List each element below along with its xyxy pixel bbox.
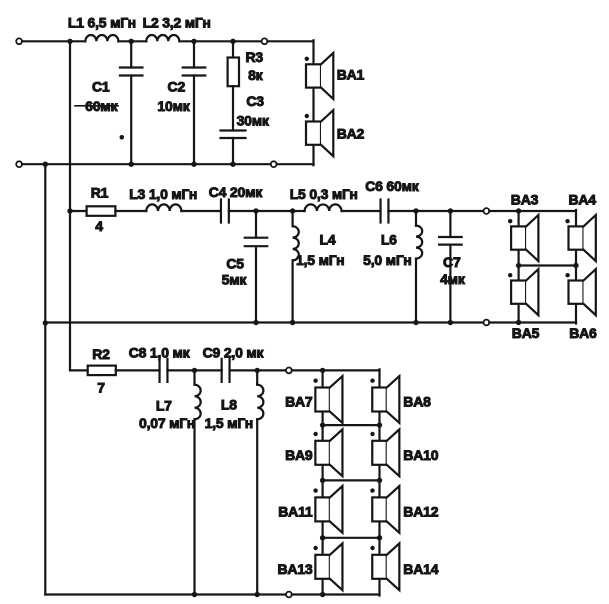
svg-text:BA10: BA10 (403, 447, 438, 463)
svg-text:C4 20мк: C4 20мк (209, 184, 264, 200)
terminal sec1 out (+) (262, 38, 268, 44)
svg-text:R2: R2 (92, 346, 110, 362)
svg-text:C1: C1 (92, 79, 110, 95)
wire mid connector (519, 264, 576, 266)
wire BA7 col (322, 370, 324, 594)
node conn right (573, 263, 578, 268)
node C2-top junction (191, 39, 196, 44)
input terminal XT1 (+) (16, 38, 22, 44)
svg-text:0,07 мГн: 0,07 мГн (139, 415, 195, 431)
node L8-bot junction (255, 592, 260, 597)
node L4-top junction (290, 208, 295, 213)
polarity dot BA9 (313, 432, 317, 436)
wire (292, 369, 380, 371)
node conn2 left (320, 478, 325, 483)
svg-text:30мк: 30мк (237, 113, 270, 129)
wire (489, 321, 576, 323)
node B junction (43, 162, 48, 167)
speaker BA6 (569, 281, 584, 304)
input terminal XT2 (-) (16, 161, 22, 167)
wire (181, 210, 221, 212)
speaker BA5 (511, 281, 526, 304)
speaker BA11 (315, 497, 330, 521)
speaker BA1 (306, 64, 321, 87)
polarity dot BA3 (508, 219, 512, 223)
node C1-bot junction (129, 162, 134, 167)
svg-text:C6 60мк: C6 60мк (365, 178, 420, 194)
wire (267, 40, 313, 42)
wire (388, 210, 483, 212)
svg-text:BA7: BA7 (285, 394, 313, 410)
svg-text:4: 4 (95, 218, 103, 234)
capacitor C3 (232, 86, 234, 130)
wire sec2 bottom rail (45, 321, 483, 323)
resistor R2 (88, 366, 116, 376)
inductor L6 (415, 211, 417, 226)
wire plus feed (69, 41, 71, 370)
svg-text:L1 6,5 мГн: L1 6,5 мГн (68, 15, 136, 31)
inductor L7 (193, 370, 195, 384)
wire (293, 210, 305, 212)
svg-text:R3: R3 (246, 49, 264, 65)
speaker BA14 (372, 555, 387, 579)
wire (342, 210, 381, 212)
speaker BA10 (372, 441, 387, 465)
polarity dot BA10 (370, 432, 374, 436)
speaker BA12 (372, 497, 387, 521)
wire BA8 col (378, 369, 380, 595)
node L6-bot junction (413, 320, 418, 325)
inductor L3 (146, 204, 181, 211)
node L8-top junction (255, 368, 260, 373)
svg-text:1,5 мГн: 1,5 мГн (205, 415, 253, 431)
polarity dot BA13 (313, 546, 317, 550)
wire (116, 369, 160, 371)
resistor R3 (232, 41, 234, 57)
wire connector row 2 (323, 479, 380, 481)
wire (489, 210, 576, 212)
strike mark (75, 105, 118, 107)
capacitor C2 (193, 41, 195, 67)
wire (22, 40, 85, 42)
capacitor C8 (158, 359, 160, 382)
speaker BA4 (569, 226, 584, 249)
svg-text:C5: C5 (226, 255, 244, 271)
polarity dot BA1 (305, 57, 309, 61)
node C7-top junction (448, 208, 453, 213)
wire connector row 3 (323, 537, 380, 539)
wire (229, 210, 293, 212)
svg-text:L6: L6 (381, 231, 397, 247)
node BA3 junction (516, 208, 521, 213)
svg-text:L7: L7 (156, 397, 172, 413)
wire (277, 163, 314, 165)
svg-text:BA9: BA9 (285, 447, 313, 463)
svg-text:L2 3,2 мГн: L2 3,2 мГн (143, 15, 211, 31)
svg-text:C7: C7 (443, 254, 461, 270)
terminal sec3 out (+) (286, 368, 292, 374)
node L7-top junction (192, 368, 197, 373)
wire (312, 40, 314, 64)
speaker BA7 (315, 388, 330, 412)
node R3-top junction (230, 39, 235, 44)
capacitor C4 (220, 200, 222, 223)
node C1-top junction (129, 39, 134, 44)
capacitor C1 (130, 41, 132, 67)
node L6-top junction (413, 208, 418, 213)
svg-text:C9 2,0 мк: C9 2,0 мк (203, 344, 265, 360)
inductor L4 (292, 211, 294, 226)
speaker BA2 (306, 122, 321, 145)
wire (22, 163, 271, 165)
node R1 input junction (67, 208, 72, 213)
inductor L5 (305, 204, 342, 211)
resistor R1 (87, 206, 116, 216)
svg-text:BA6: BA6 (569, 325, 597, 341)
wire (312, 145, 314, 165)
node BA5 junction (516, 320, 521, 325)
inductor L8 (256, 370, 258, 384)
node conn left (516, 263, 521, 268)
inductor L1 (85, 35, 118, 41)
svg-text:8к: 8к (248, 67, 264, 83)
capacitor C9 (221, 359, 223, 382)
polarity dot BA5 (508, 273, 512, 277)
svg-text:BA5: BA5 (512, 325, 540, 341)
capacitor C5 (255, 211, 257, 238)
node L7-bot junction (192, 592, 197, 597)
svg-text:10мк: 10мк (157, 98, 190, 114)
svg-text:C3: C3 (246, 93, 264, 109)
wire (118, 40, 146, 42)
node BA7 junction (320, 368, 325, 373)
svg-text:5мк: 5мк (222, 271, 248, 287)
polarity dot BA7 (313, 379, 317, 383)
svg-text:L3 1,0 мГн: L3 1,0 мГн (129, 186, 197, 202)
svg-text:4мк: 4мк (440, 271, 466, 287)
node conn1 right (377, 422, 382, 427)
wire (167, 369, 221, 371)
terminal sec2 out (+) (484, 208, 490, 214)
inductor L2 (146, 35, 179, 41)
wire (292, 593, 380, 595)
svg-text:BA1: BA1 (337, 67, 365, 83)
capacitor C7 (449, 211, 451, 237)
node L4-bot junction (290, 320, 295, 325)
svg-text:L4: L4 (320, 231, 336, 247)
terminal sec2 out (-) (484, 320, 490, 326)
node C5-top junction (253, 208, 258, 213)
svg-text:5,0 мГн: 5,0 мГн (363, 252, 411, 268)
capacitor C6 (379, 200, 381, 223)
polarity dot BA11 (313, 488, 317, 492)
node conn2 right (377, 478, 382, 483)
svg-text:BA2: BA2 (337, 126, 365, 142)
speaker BA8 (372, 388, 387, 412)
svg-text:1,5 мГн: 1,5 мГн (296, 252, 344, 268)
node conn1 left (320, 422, 325, 427)
svg-text:BA12: BA12 (403, 503, 438, 519)
wire minus feed (44, 164, 46, 594)
terminal sec1 out (-) (271, 161, 277, 167)
wire (230, 369, 287, 371)
svg-text:L5 0,3 мГн: L5 0,3 мГн (290, 186, 358, 202)
wire (70, 210, 87, 212)
node C5-bot junction (253, 320, 258, 325)
node C2-bot junction (191, 162, 196, 167)
svg-text:BA14: BA14 (403, 561, 438, 577)
wire connector row 1 (323, 424, 380, 426)
polarity dot BA4 (565, 219, 569, 223)
node conn3 right (377, 535, 382, 540)
wire (115, 210, 146, 212)
speaker BA3 (511, 226, 526, 249)
speaker BA9 (315, 441, 330, 465)
svg-text:L8: L8 (221, 396, 237, 412)
node BA13 junction (320, 592, 325, 597)
svg-text:C8 1,0 мк: C8 1,0 мк (129, 344, 191, 360)
speaker BA13 (315, 555, 330, 579)
svg-text:R1: R1 (91, 184, 109, 200)
node B2 junction (43, 320, 48, 325)
stray dot (120, 135, 125, 140)
node C7-bot junction (448, 320, 453, 325)
wire (312, 88, 314, 122)
wire sec3 bottom rail (45, 593, 286, 595)
svg-text:7: 7 (97, 380, 105, 396)
wire (70, 369, 88, 371)
svg-text:BA11: BA11 (278, 503, 313, 519)
svg-text:BA8: BA8 (403, 394, 431, 410)
wire BA4 col (575, 210, 577, 324)
terminal sec3 out (-) (286, 592, 292, 598)
svg-text:C2: C2 (168, 79, 186, 95)
polarity dot BA8 (370, 379, 374, 383)
svg-text:BA3: BA3 (511, 191, 539, 207)
polarity dot BA14 (370, 546, 374, 550)
polarity dot BA2 (305, 114, 309, 118)
svg-text:BA4: BA4 (568, 191, 596, 207)
node A junction (67, 39, 72, 44)
polarity dot BA6 (565, 273, 569, 277)
svg-text:BA13: BA13 (278, 561, 313, 577)
wire (180, 40, 262, 42)
node C3-bot junction (230, 162, 235, 167)
polarity dot BA12 (370, 488, 374, 492)
node conn3 left (320, 535, 325, 540)
wire BA3 col (517, 211, 519, 323)
